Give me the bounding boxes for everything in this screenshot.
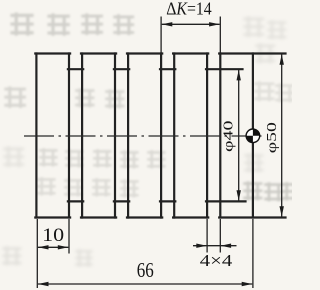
groove 3 root bottom: [160, 200, 175, 202]
bleed-through row B (left middle): [4, 86, 124, 108]
dim 4x4 left arrow (outside, pointing right): [196, 244, 207, 248]
dim 4x4 dimension line: [193, 245, 237, 247]
svg-text:4×4: 4×4: [200, 251, 233, 270]
phi40 dimension line: [238, 70, 240, 201]
dim 66 dimension line: [38, 283, 252, 285]
phi50 top arrow: [280, 54, 284, 64]
shaft right end face: [252, 54, 254, 218]
bleed-through text row A (top-left): [10, 12, 134, 35]
bleed-through row D (middle band): [39, 148, 165, 168]
phi40 top arrow: [237, 70, 241, 81]
bottom edge land 3: [127, 216, 162, 218]
top edge land 5 + phi50 extension line: [219, 52, 285, 54]
dim 4x4 right arrow (outside, pointing left): [221, 244, 232, 248]
phi50 bottom arrow: [280, 206, 284, 217]
land 2 right edge / groove 2 left wall: [114, 54, 116, 218]
phi40 bottom arrow: [237, 190, 241, 201]
dim 4x4 left extension line: [206, 219, 208, 253]
arrowheads: [38, 22, 284, 286]
top edge land 4: [173, 52, 208, 54]
phi50 dimension line: [281, 54, 283, 217]
dim 66 right arrow: [242, 282, 253, 286]
bleed-through bottom-left: [2, 246, 93, 267]
dim 10 right arrow: [58, 245, 69, 249]
top edge land 2: [81, 52, 116, 54]
dim 66 right extension line: [252, 219, 254, 288]
groove 1 root bottom: [68, 200, 83, 202]
bottom edge land 5 + phi50 extension line: [219, 216, 285, 218]
groove 1 root top: [68, 68, 83, 70]
bottom edge land 2: [81, 216, 116, 218]
dim 66 left arrow: [38, 282, 49, 286]
svg-text:ΔK=14: ΔK=14: [166, 0, 212, 19]
groove 2 root top: [114, 68, 129, 70]
svg-text:φ50: φ50: [264, 122, 279, 153]
dim 10 left arrow: [38, 245, 49, 249]
bleed-through row B right: [254, 81, 294, 102]
land 1 right edge / groove 1 left wall: [68, 54, 70, 218]
groove 4 right wall / land 5 left edge: [219, 54, 221, 218]
land 3 right edge / groove 3 left wall: [160, 54, 162, 218]
bleed-through wisps top-right: [243, 16, 286, 63]
groove 3 root top: [160, 68, 175, 70]
bottom edge land 1: [35, 216, 70, 218]
groove 4 root top + phi40 extension line: [206, 68, 243, 70]
svg-text:10: 10: [42, 225, 64, 246]
groove 3 right wall / land 4 left edge: [173, 54, 175, 218]
groove 1 right wall / land 2 left edge: [81, 54, 83, 218]
centerline (dash-dot axis): [24, 135, 262, 137]
dimension texts: [42, 0, 279, 282]
delta-K right arrow: [209, 22, 220, 26]
svg-text:66: 66: [137, 258, 154, 282]
svg-text:φ40: φ40: [221, 120, 236, 152]
datum target circle on axis at right end: [246, 129, 260, 143]
delta-K right extension line: [219, 17, 221, 54]
delta-K left extension line: [160, 17, 162, 54]
land 1 left edge: [35, 54, 37, 218]
bleed-through row D right side: [243, 181, 300, 201]
delta-K dimension line: [162, 23, 220, 25]
top edge land 3: [127, 52, 162, 54]
groove 2 root bottom: [114, 200, 129, 202]
bottom edge land 4: [173, 216, 208, 218]
dim 4x4 right extension line: [219, 219, 221, 253]
dim 10 dimension line: [38, 246, 69, 248]
dim 10 right extension line: [68, 219, 70, 254]
delta-K left arrow: [162, 22, 173, 26]
dim 10 / 66 left extension line: [36, 219, 38, 288]
groove 4 root bottom + phi40 extension line: [206, 200, 246, 202]
land 4 right edge / groove 4 left wall: [206, 54, 208, 218]
groove 2 right wall / land 3 left edge: [127, 54, 129, 218]
top edge land 1: [35, 52, 70, 54]
bleed-through row E: [37, 177, 138, 197]
